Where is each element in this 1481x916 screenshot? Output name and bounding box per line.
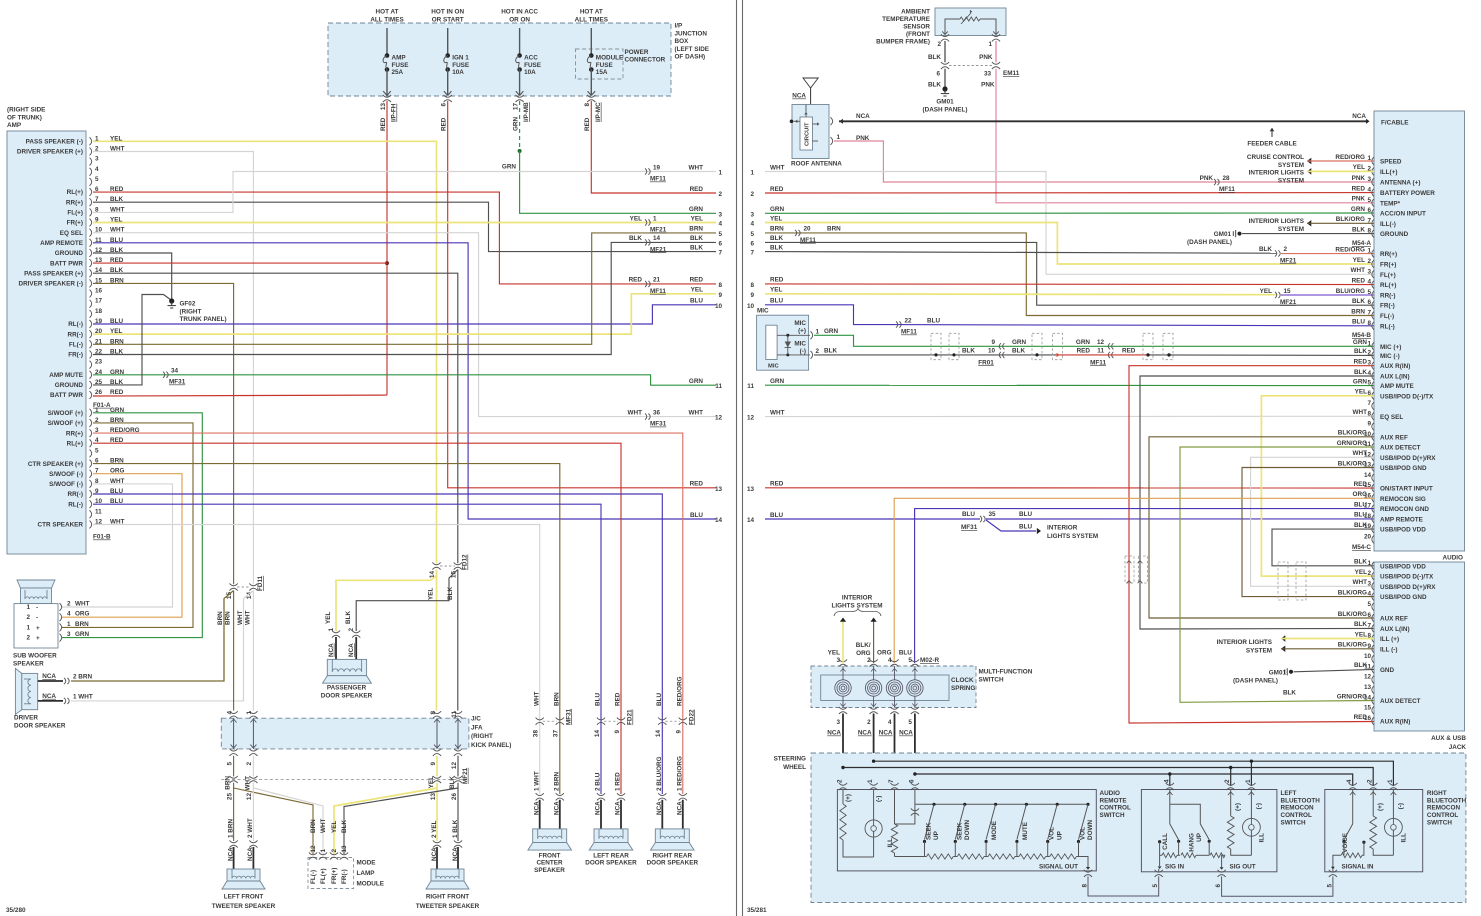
left BT sig in pin 5	[1159, 855, 1161, 866]
multi-function switch top pin 5	[911, 659, 919, 661]
svg-text:BLU/ORG: BLU/ORG	[1336, 288, 1365, 295]
svg-text:GRN: GRN	[770, 206, 785, 213]
junction node pin13 batt	[385, 261, 389, 265]
wire tweeter NCA	[457, 847, 459, 869]
wire AMP pin12 BLK to ground GF02	[93, 253, 172, 299]
svg-text:21: 21	[653, 277, 661, 284]
svg-text:ILL (+): ILL (+)	[1380, 636, 1399, 643]
AMP F01-B pin 4	[90, 439, 92, 447]
svg-text:1: 1	[1367, 340, 1371, 347]
radio M54-B pin 5 RR(-)	[1372, 291, 1374, 299]
connector MF21 pin 2 half connector	[1275, 250, 1277, 256]
svg-text:SIG OUT: SIG OUT	[1230, 863, 1256, 870]
radio M54-A pin 6 ACC/ON INPUT	[1372, 209, 1374, 217]
svg-text:BRN: BRN	[225, 611, 232, 625]
left BT sig out pin 6	[1222, 855, 1225, 868]
svg-text:GRN: GRN	[689, 206, 704, 213]
AMP F01-A pin 8	[90, 208, 92, 216]
svg-text:SYSTEM: SYSTEM	[1278, 162, 1304, 169]
svg-text:MIC: MIC	[794, 320, 806, 327]
multi-function switch (clock spring) box	[811, 666, 976, 708]
svg-text:TEMPERATURE: TEMPERATURE	[882, 16, 930, 23]
svg-text:FL(-): FL(-)	[310, 870, 317, 884]
svg-text:2: 2	[1367, 779, 1374, 783]
svg-text:1: 1	[328, 628, 335, 632]
svg-text:1: 1	[988, 41, 992, 48]
radio M54-C pin 19 USB/IPOD VDD	[1372, 525, 1374, 533]
svg-text:ALL TIMES: ALL TIMES	[370, 16, 403, 23]
radio M54-C pin 4 AUX L(IN)	[1372, 372, 1374, 380]
svg-text:4: 4	[226, 711, 233, 715]
svg-text:AMP: AMP	[392, 55, 407, 62]
svg-text:PNK: PNK	[1352, 196, 1366, 203]
svg-text:BLK: BLK	[770, 235, 783, 242]
AUX & USB jack box	[1374, 562, 1465, 731]
wire MFS NCA lead	[894, 714, 896, 787]
svg-text:USB/IPOD D(+)/RX: USB/IPOD D(+)/RX	[1380, 455, 1436, 462]
connector FD12	[440, 565, 455, 567]
svg-text:YEL: YEL	[1355, 631, 1367, 638]
connector MF11 pin 28 half connector	[1214, 179, 1216, 185]
svg-text:FD12: FD12	[462, 554, 469, 570]
svg-text:AUX & USB: AUX & USB	[1431, 735, 1466, 742]
svg-text:RIGHT REAR: RIGHT REAR	[653, 853, 693, 860]
feeder cable label	[1270, 128, 1275, 131]
svg-text:MF21: MF21	[1280, 257, 1297, 264]
svg-text:GROUND: GROUND	[1380, 231, 1409, 238]
svg-text:6: 6	[718, 240, 722, 247]
svg-text:BUMPER FRAME): BUMPER FRAME)	[876, 39, 930, 46]
svg-text:YEL: YEL	[428, 588, 435, 600]
AMP F01-A pin 11	[90, 239, 92, 247]
wire AMP pin15 BRN driver speaker (-)	[93, 283, 234, 584]
svg-text:MF11: MF11	[650, 176, 666, 183]
svg-text:2 YEL: 2 YEL	[431, 820, 438, 838]
wire F01-B pin9 BLU to right rear speaker	[93, 494, 662, 794]
svg-text:2 BRN: 2 BRN	[73, 674, 92, 681]
connector pin 6 below fuse	[444, 95, 452, 97]
svg-text:YEL: YEL	[331, 821, 338, 833]
wire MFS NCA lead	[842, 714, 844, 787]
speaker NCA connector	[679, 793, 687, 795]
svg-text:MULTI-FUNCTION: MULTI-FUNCTION	[979, 669, 1033, 676]
svg-text:2 BLU/ORG: 2 BLU/ORG	[656, 756, 663, 791]
svg-text:13: 13	[747, 486, 755, 493]
svg-text:BRN: BRN	[75, 621, 89, 628]
wire speaker NCA	[682, 800, 684, 829]
svg-text:SPEAKER: SPEAKER	[13, 660, 44, 667]
svg-text:PASS SPEAKER (-): PASS SPEAKER (-)	[26, 139, 83, 146]
svg-text:M02-R: M02-R	[920, 657, 939, 664]
svg-text:CALL: CALL	[1162, 833, 1169, 850]
wire MF21 YEL branch to mode lamp	[334, 788, 437, 854]
svg-text:BRN: BRN	[310, 819, 317, 833]
AMP F01-B pin 6	[90, 460, 92, 468]
AMP F01-A pin 15	[90, 280, 92, 288]
audio remote switch top pin 7	[890, 783, 898, 785]
connector MF21 pin 14 half connector	[645, 239, 647, 245]
speaker NCA connector	[658, 793, 666, 795]
svg-text:GRN: GRN	[512, 116, 519, 131]
ground GF02 (right trunk panel)	[169, 298, 174, 303]
svg-text:NCA: NCA	[792, 93, 806, 100]
left rear door speaker	[594, 829, 628, 843]
svg-text:2: 2	[348, 628, 355, 632]
svg-text:BLU: BLU	[690, 512, 703, 519]
AMP F01-A pin 18	[90, 310, 92, 318]
svg-text:AUX REF: AUX REF	[1380, 434, 1408, 441]
svg-text:I/P-FH: I/P-FH	[391, 103, 398, 122]
svg-text:GM01: GM01	[936, 99, 954, 106]
wire F01-B pin7 ORG to subwoofer pin4	[62, 474, 182, 618]
wire MF21 BLK branch to mode lamp	[344, 788, 458, 854]
svg-text:BRN: BRN	[770, 226, 784, 233]
right front tweeter speaker	[431, 869, 464, 881]
switch VOL UP	[1056, 803, 1059, 806]
svg-text:AUX REF: AUX REF	[1380, 616, 1408, 623]
svg-text:RED/ORG: RED/ORG	[1335, 154, 1365, 161]
speaker NCA connector	[617, 793, 625, 795]
svg-text:PNK: PNK	[1352, 175, 1366, 182]
svg-text:HOT IN ACC: HOT IN ACC	[501, 9, 538, 16]
wire edge7 BLK to radio RR(+) via MF21	[765, 252, 1277, 254]
jack pin 1 USB/IPOD VDD	[1372, 562, 1374, 570]
wire F01-B pin4 RED to left rear speaker	[93, 443, 621, 794]
radio M54-C pin 3 AUX R(IN)	[1372, 362, 1374, 370]
wire FD12 YEL down to J/C	[436, 570, 438, 711]
svg-text:FUSE: FUSE	[524, 62, 541, 69]
wire edge6 BLK to radio FR(-)	[765, 242, 1374, 305]
svg-text:FL(+): FL(+)	[320, 868, 327, 884]
wire MFS NCA lead	[914, 714, 916, 787]
wire FD11 BRN down to J/C	[233, 591, 235, 711]
connector MF11 pin 20 half connector	[795, 230, 797, 236]
svg-text:BLK/ORG: BLK/ORG	[1338, 611, 1367, 618]
svg-text:2 BLU: 2 BLU	[595, 772, 602, 791]
svg-text:MUTE: MUTE	[1022, 822, 1029, 840]
svg-text:BLK: BLK	[1354, 621, 1367, 628]
wire steering bus from MFS pin5	[915, 774, 1353, 786]
J/C JFA pass-through wire	[436, 718, 438, 749]
svg-text:1 BLK: 1 BLK	[452, 819, 459, 838]
svg-text:F01-B: F01-B	[93, 534, 111, 541]
svg-text:BLU: BLU	[770, 512, 783, 519]
svg-text:YEL: YEL	[1260, 288, 1272, 295]
wire FD11 branch WHT to driver speaker	[244, 591, 254, 701]
svg-text:RED: RED	[629, 277, 643, 284]
svg-text:BLK: BLK	[345, 611, 352, 624]
svg-text:SWITCH: SWITCH	[1100, 812, 1125, 819]
svg-text:11: 11	[1097, 348, 1104, 355]
svg-text:5: 5	[1152, 884, 1159, 888]
audio remote switch top pin 6	[911, 783, 919, 785]
svg-text:BATT PWR: BATT PWR	[50, 260, 83, 267]
multi-function switch bottom pin 2	[870, 707, 878, 709]
AMP F01-B pin 11	[90, 510, 92, 518]
svg-text:AUDIO: AUDIO	[1100, 790, 1121, 797]
svg-text:AMP REMOTE: AMP REMOTE	[40, 240, 83, 247]
svg-text:MF31: MF31	[961, 524, 978, 531]
arrow for jack ILL-	[1281, 646, 1285, 652]
svg-text:DRIVER SPEAKER (+): DRIVER SPEAKER (+)	[17, 149, 83, 156]
svg-text:RED: RED	[770, 277, 784, 284]
svg-text:1: 1	[1245, 779, 1252, 783]
switch SEEK DOWN	[963, 803, 966, 806]
connector MF11 pin 19 half connector	[645, 168, 647, 174]
wire AMP pin26 RED batt pwr	[93, 394, 387, 397]
wire FD11 WHT down to J/C	[252, 591, 254, 711]
svg-text:FUSE: FUSE	[596, 62, 613, 69]
svg-text:MF11: MF11	[1219, 186, 1235, 193]
wire AMP pin24 GRN amp mute to edge wire 11	[93, 375, 716, 385]
svg-text:AUDIO: AUDIO	[1443, 555, 1464, 562]
wire edge10 BLU to radio RL(-)	[765, 305, 1374, 326]
svg-text:UP: UP	[1196, 832, 1203, 842]
svg-text:BLK/ORG: BLK/ORG	[1338, 430, 1367, 437]
wire AMP pin2 WHT driver speaker (+)	[93, 152, 253, 585]
radio M54-C pin 10 AUX REF	[1372, 433, 1374, 441]
svg-text:UP: UP	[933, 830, 940, 840]
wire radio AUX R(IN) RED to jack pin16	[1129, 366, 1374, 723]
wire fuse3 GRN to edge wire 3	[520, 151, 716, 213]
wire speaker NCA	[600, 800, 602, 829]
svg-text:SWITCH: SWITCH	[979, 677, 1004, 684]
svg-text:14: 14	[594, 730, 601, 738]
svg-text:35: 35	[989, 511, 997, 518]
svg-text:SWITCH: SWITCH	[1427, 820, 1452, 827]
svg-text:FUSE: FUSE	[452, 62, 469, 69]
left BT switch top pin 1	[1250, 761, 1252, 786]
svg-text:TEMP*: TEMP*	[1380, 200, 1401, 207]
AMP F01-B pin 9	[90, 490, 92, 498]
svg-text:BATTERY POWER: BATTERY POWER	[1380, 190, 1435, 197]
svg-text:PASS SPEAKER (+): PASS SPEAKER (+)	[24, 270, 83, 277]
tweeter NCA connector	[433, 840, 441, 842]
svg-text:AUX DETECT: AUX DETECT	[1380, 445, 1421, 452]
svg-text:FUSE: FUSE	[392, 62, 409, 69]
svg-text:3: 3	[836, 719, 840, 726]
wire signal out to left bluetooth switch	[1088, 876, 1159, 896]
svg-text:TRUNK PANEL): TRUNK PANEL)	[180, 316, 227, 323]
multi-function switch bottom pin 3	[839, 707, 847, 709]
svg-text:GRN: GRN	[1012, 339, 1027, 346]
svg-text:AUX L(IN): AUX L(IN)	[1380, 626, 1410, 633]
AMP F01-A pin 23	[90, 361, 92, 369]
svg-text:WHT: WHT	[1351, 267, 1366, 274]
radio M54-C pin 16 REMOCON SIG	[1372, 494, 1374, 502]
svg-text:3: 3	[750, 211, 754, 218]
svg-text:2: 2	[750, 191, 754, 198]
svg-text:BLU: BLU	[770, 298, 783, 305]
svg-text:RED: RED	[690, 186, 704, 193]
svg-text:RED: RED	[380, 117, 387, 131]
radio M54-A pin 4 BATTERY POWER	[1372, 189, 1374, 197]
svg-text:MIC: MIC	[768, 364, 779, 370]
svg-text:16: 16	[95, 288, 103, 295]
svg-text:9: 9	[430, 762, 437, 766]
svg-text:BLK: BLK	[770, 244, 783, 251]
junction node GRN	[518, 149, 522, 153]
svg-text:BLK: BLK	[1352, 226, 1365, 233]
wire passenger speaker pin1 NCA	[335, 637, 337, 660]
wire AMP pin7 BLK to edge wire 7	[93, 202, 716, 251]
svg-text:6: 6	[441, 103, 448, 107]
svg-text:SYSTEM: SYSTEM	[1278, 226, 1304, 233]
svg-text:9: 9	[991, 339, 995, 346]
svg-text:7: 7	[1367, 622, 1371, 629]
svg-text:11: 11	[747, 383, 754, 390]
svg-text:14: 14	[715, 517, 723, 524]
wire jack GND BLK	[1294, 669, 1375, 671]
interior lights system brace	[834, 609, 881, 617]
radio M54-C pin 13 USB/IPOD GND	[1372, 464, 1374, 472]
wire edge8 RED to radio RL(+)	[765, 283, 1374, 286]
AMP F01-A pin 12	[90, 249, 92, 257]
svg-text:RED: RED	[441, 117, 448, 131]
radio M54-C pin 20 nc	[1372, 536, 1374, 544]
radio M54-B pin 3 FL(+)	[1372, 270, 1374, 278]
svg-text:2: 2	[1367, 258, 1371, 265]
wire edge3 GRN to radio ACC input	[765, 212, 1374, 214]
svg-text:INTERIOR: INTERIOR	[1047, 525, 1078, 532]
svg-text:CONNECTOR: CONNECTOR	[625, 57, 666, 64]
svg-text:RED: RED	[690, 277, 704, 284]
radio M54-C pin 7 nc	[1372, 402, 1374, 410]
svg-text:GRN: GRN	[1353, 339, 1368, 346]
svg-text:-: -	[36, 605, 38, 612]
svg-text:BLK: BLK	[629, 235, 642, 242]
svg-text:1 RED: 1 RED	[615, 772, 622, 791]
svg-text:FD22: FD22	[688, 709, 695, 725]
connector FD21	[604, 720, 618, 722]
switch common bus from pin6	[914, 790, 916, 805]
wire F01-B pin8 WHT to subwoofer pin2	[62, 484, 173, 607]
svg-text:YEL: YEL	[770, 287, 782, 294]
radio M54-A pin 7 ILL(-)	[1372, 219, 1374, 227]
jack pin 16 AUX R(IN)	[1372, 717, 1374, 725]
svg-text:AUX L(IN): AUX L(IN)	[1380, 374, 1410, 381]
roof antenna	[810, 88, 812, 105]
svg-text:INTERIOR LIGHTS: INTERIOR LIGHTS	[1217, 639, 1272, 646]
wire MF31 BLU to radio AMP REMOTE	[986, 518, 1374, 520]
svg-text:OR ON: OR ON	[509, 16, 530, 23]
wire speaker NCA	[559, 800, 561, 829]
svg-text:36: 36	[653, 409, 661, 416]
svg-text:NCA: NCA	[879, 730, 893, 737]
svg-text:BRN: BRN	[553, 692, 560, 706]
AMP F01-B pin 3	[90, 429, 92, 437]
svg-text:RED: RED	[1354, 359, 1368, 366]
connector FR01 pins 9/10	[999, 343, 1001, 349]
radio M54-A pin 1 SPEED	[1372, 157, 1374, 165]
svg-text:MF31: MF31	[565, 708, 572, 725]
svg-text:(DASH PANEL): (DASH PANEL)	[1233, 677, 1278, 684]
svg-text:GM01: GM01	[1269, 669, 1287, 676]
clock spring coil	[865, 680, 881, 696]
svg-text:(+): (+)	[845, 794, 852, 802]
multi-function switch bottom pin 4	[890, 707, 898, 709]
svg-text:BLU: BLU	[927, 317, 940, 324]
svg-text:INTERIOR LIGHTS: INTERIOR LIGHTS	[1249, 169, 1304, 176]
ILL resistor on pin7	[894, 790, 896, 825]
svg-text:NCA: NCA	[858, 730, 872, 737]
svg-text:10: 10	[747, 303, 755, 310]
svg-text:RED: RED	[1122, 348, 1136, 355]
svg-text:2: 2	[331, 849, 338, 853]
svg-text:RED: RED	[770, 481, 784, 488]
wire edge11 GRN to radio AMP MUTE	[765, 384, 1374, 386]
svg-text:REMOCON SIG: REMOCON SIG	[1380, 496, 1426, 503]
svg-text:6: 6	[936, 71, 940, 78]
svg-text:7: 7	[1367, 400, 1371, 407]
svg-text:YEL: YEL	[770, 215, 782, 222]
svg-text:(FRONT: (FRONT	[906, 31, 930, 38]
radio M54-C pin 15 ON/START INPUT	[1372, 484, 1374, 492]
AMP F01-A pin 20	[90, 330, 92, 338]
svg-text:BLK: BLK	[962, 348, 975, 355]
svg-text:1: 1	[246, 711, 253, 715]
svg-text:2: 2	[718, 191, 722, 198]
svg-text:RL(-): RL(-)	[68, 501, 83, 508]
right BT switch top pin 1	[1389, 783, 1397, 785]
I/P junction box (left side of dash)	[328, 23, 671, 96]
ground GM01 (dash panel) at radio	[1232, 231, 1234, 236]
radio M54-B pin 2 FR(+)	[1372, 260, 1374, 268]
svg-text:HOT AT: HOT AT	[376, 9, 399, 16]
svg-text:20: 20	[804, 226, 812, 233]
svg-text:37: 37	[553, 730, 560, 738]
wire interior lights BLK/ORG	[1307, 222, 1374, 224]
wire AMP pin8 WHT to edge wire 1	[93, 172, 716, 213]
svg-text:YEL: YEL	[1353, 257, 1365, 264]
J/C JFA pass-through wire	[457, 718, 459, 749]
wire radio AUX REF BLK/ORG to jack pin6	[1149, 437, 1374, 618]
svg-text:SWITCH: SWITCH	[1281, 820, 1306, 827]
wire AMP pin11 BLU amp remote to edge wire 14	[93, 243, 716, 519]
svg-text:23: 23	[95, 359, 103, 366]
svg-text:BLK: BLK	[690, 235, 703, 242]
wire driver door speaker pin1 NCA/WHT	[38, 700, 63, 702]
svg-text:INTERIOR LIGHTS: INTERIOR LIGHTS	[1249, 218, 1304, 225]
svg-text:ORG: ORG	[75, 611, 90, 618]
svg-text:POWER: POWER	[625, 49, 649, 56]
right rear door speaker	[655, 829, 689, 843]
radio M54-A pin 5 TEMP*	[1372, 199, 1374, 207]
svg-text:17: 17	[512, 103, 519, 111]
svg-text:BLK: BLK	[341, 820, 348, 833]
svg-text:RL(+): RL(+)	[67, 440, 83, 447]
radio M54-C pin 11 AUX DETECT	[1372, 443, 1374, 451]
svg-text:12: 12	[310, 845, 317, 853]
svg-text:RED: RED	[770, 186, 784, 193]
svg-text:YEL: YEL	[325, 612, 332, 624]
svg-text:BLK: BLK	[1012, 348, 1025, 355]
wire radio REMOCON GND BLU to multifunction switch	[915, 509, 1374, 663]
svg-text:BLU: BLU	[962, 511, 975, 518]
svg-text:6: 6	[750, 240, 754, 247]
svg-text:RR(-): RR(-)	[67, 491, 83, 498]
svg-text:FL(-): FL(-)	[69, 342, 83, 349]
svg-text:1: 1	[1367, 560, 1371, 567]
wire tweeter NCA	[252, 847, 254, 869]
svg-text:1 RED/ORG: 1 RED/ORG	[676, 756, 683, 791]
svg-text:ORG: ORG	[877, 650, 892, 657]
svg-text:2: 2	[1367, 570, 1371, 577]
AMP F01-A pin 13	[90, 259, 92, 267]
svg-text:SYSTEM: SYSTEM	[1246, 648, 1272, 655]
svg-text:3: 3	[67, 631, 71, 638]
svg-text:WHT: WHT	[1353, 450, 1368, 457]
